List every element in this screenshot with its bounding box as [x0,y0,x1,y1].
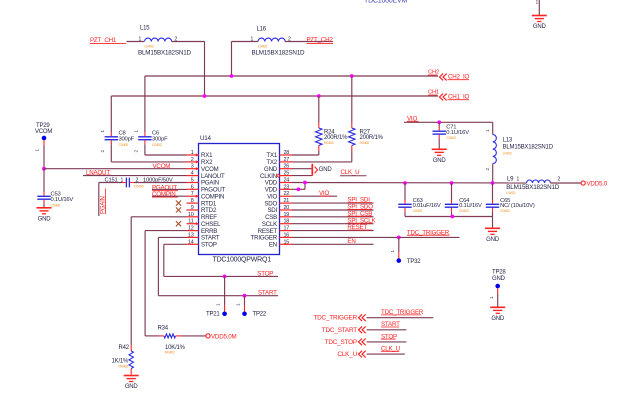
svg-text:R42: R42 [119,345,130,351]
junction [203,94,207,98]
junction [491,181,495,185]
svg-text:START: START [258,290,277,297]
pin 2 RX2 [187,161,199,163]
capacitor C71 [438,122,440,127]
svg-text:2: 2 [134,150,139,153]
wire [43,204,45,208]
pin 9 RTD2 [187,209,199,211]
svg-text:1: 1 [517,177,520,183]
svg-text:25: 25 [284,171,290,177]
svg-text:1: 1 [134,130,139,133]
svg-text:1: 1 [216,303,221,306]
pin 15 EN [280,243,292,245]
resistor R24 [318,96,320,123]
wire [492,217,494,229]
test point TP21 [224,276,226,305]
svg-text:BLM15BX182SN1D: BLM15BX182SN1D [503,145,554,151]
svg-text:L15: L15 [140,26,150,32]
wire pin23 riser [292,188,306,190]
svg-text:1: 1 [536,0,539,6]
pin arrow [196,160,199,163]
svg-text:C0402: C0402 [459,209,469,213]
no-connect RTD2 [176,207,181,212]
junction [243,294,247,298]
svg-text:TP32: TP32 [407,259,421,265]
capacitor C64 [451,183,453,201]
wire [538,0,540,15]
pin 1 RX1 [187,154,199,156]
pin 25 CLKIN [280,175,292,177]
svg-text:2: 2 [100,150,105,153]
junction [317,94,321,98]
no-connect RTD1 [176,201,181,206]
svg-text:TP28: TP28 [492,269,506,275]
pin 3 VCOM [187,168,199,170]
svg-text:L9: L9 [507,177,514,183]
junction [450,181,454,185]
pin arrow [196,153,199,156]
wire [172,41,205,43]
svg-text:CLK_U: CLK_U [337,351,357,358]
ground [37,207,52,209]
wire TRIGGER [292,236,460,238]
pin arrow [196,222,199,225]
wire VCOM net [44,168,187,170]
svg-text:9: 9 [191,205,194,211]
wire [134,182,187,184]
resistor R27 [351,76,353,123]
wire CH2 net [145,75,438,77]
svg-text:15: 15 [284,239,290,245]
svg-text:12: 12 [188,226,194,232]
wire [43,169,45,193]
svg-text:TDC_TRIGGER: TDC_TRIGGER [313,315,357,322]
svg-text:L13: L13 [503,138,513,144]
svg-text:1: 1 [390,250,395,253]
wire [451,212,453,217]
test point TP22 [244,296,246,305]
svg-text:28: 28 [284,150,290,156]
svg-text:R0402: R0402 [165,351,175,355]
ground [485,227,500,229]
pin 5 PGAIN [187,182,199,184]
svg-text:TP22: TP22 [253,311,267,317]
capacitor C63 [404,183,406,201]
svg-text:3: 3 [191,164,194,170]
svg-text:BLM15BX182SN1D: BLM15BX182SN1D [506,184,560,191]
ground [490,306,505,308]
svg-text:0.1U/16V: 0.1U/16V [446,130,469,136]
pin 18 SCLK [280,223,292,225]
svg-text:8: 8 [191,198,194,204]
svg-text:C0402: C0402 [446,136,456,140]
svg-text:L0402: L0402 [145,45,154,49]
junction node VCOM [42,167,46,171]
wire [127,41,145,43]
svg-text:1: 1 [191,150,194,156]
svg-text:CLK_U: CLK_U [341,169,360,176]
wire [438,139,440,149]
wire ERRB [145,230,186,232]
svg-text:EN: EN [347,238,355,245]
no-connect CHSEL [176,221,181,226]
svg-text:13: 13 [188,232,194,238]
wire [144,144,146,155]
svg-text:R0402: R0402 [119,364,129,368]
wire [145,154,187,156]
wire [110,144,112,162]
svg-text:10: 10 [188,212,194,218]
pin 24 VDD [280,182,292,184]
junction [437,120,441,124]
svg-text:11: 11 [188,219,193,225]
svg-text:1: 1 [489,296,494,299]
svg-text:1: 1 [485,129,490,132]
power symbol GND [311,164,313,176]
wire [111,161,186,163]
junction [397,236,401,240]
wire [204,42,206,97]
junction [297,187,301,191]
pin 4 LANOUT [187,175,199,177]
capacitor C65 [492,183,494,201]
wire [404,212,406,217]
wire START [158,236,186,238]
svg-text:22: 22 [284,191,290,197]
svg-text:VDD5.0: VDD5.0 [587,180,608,187]
pin 11 CHSEL [187,223,199,225]
svg-text:GND: GND [492,276,506,282]
wire [231,42,233,77]
wire [99,182,122,184]
svg-text:14: 14 [188,239,194,245]
svg-text:2: 2 [191,157,194,163]
clkin diamond [277,174,281,177]
svg-text:L0402: L0402 [503,152,512,156]
wire CH1 net [111,95,438,97]
junction [451,215,455,219]
svg-text:24: 24 [284,178,290,184]
svg-text:R0402: R0402 [360,141,370,145]
wire VDD rail [292,182,527,185]
pin arrow [196,167,199,170]
svg-text:GND: GND [319,167,333,173]
pin 8 RTD1 [187,202,199,204]
svg-text:27: 27 [284,157,290,163]
test point TP32 [398,237,400,252]
svg-text:2: 2 [558,177,561,183]
svg-text:17: 17 [284,226,290,232]
wire [182,335,207,337]
inductor L13 [492,122,494,134]
pin 17 RESET [280,230,292,232]
svg-text:21: 21 [284,198,290,204]
svg-text:C0402: C0402 [152,143,162,147]
svg-text:R0402: R0402 [324,141,334,145]
power symbol VDD5.0M [206,334,210,338]
pin 20 SDI [280,209,292,211]
wire VIO [404,121,493,123]
svg-text:5: 5 [191,178,194,184]
svg-text:TDC_START: TDC_START [322,327,358,334]
svg-text:1: 1 [100,130,105,133]
svg-text:C0402: C0402 [134,185,144,189]
pin 26 GND [280,168,292,170]
wire SPI_SDI [292,202,374,204]
svg-text:26: 26 [284,164,290,170]
pin 22 VIO [280,195,292,197]
svg-text:C0402: C0402 [413,209,423,213]
wire VIO pin22 [292,195,338,197]
wire SPI_CSB [292,216,374,218]
svg-text:STOP: STOP [201,242,217,249]
svg-text:20: 20 [284,205,290,211]
svg-text:EN: EN [269,242,277,249]
svg-text:VCOM: VCOM [153,163,171,170]
junction [230,74,234,78]
ground [124,375,139,377]
wire [232,41,259,43]
svg-text:L0402: L0402 [258,45,267,49]
wire [43,140,45,146]
svg-text:18: 18 [284,219,290,225]
pin 28 TX1 [280,154,292,156]
svg-text:TDC_STOP: TDC_STOP [325,339,357,346]
wire [83,175,187,177]
svg-text:GND: GND [491,316,505,322]
pin 14 STOP [187,243,199,245]
pin 23 VDD [280,188,292,190]
svg-text:TDC1000QPWRQ1: TDC1000QPWRQ1 [213,256,272,263]
wire rail2 [405,216,493,218]
svg-text:23: 23 [284,184,290,190]
svg-text:1: 1 [235,303,240,306]
svg-text:GND: GND [433,158,447,164]
pin 16 TRIGGER [280,236,292,238]
pin arrow [196,195,199,198]
wire [98,183,100,217]
wire SPI_SDO [292,209,374,211]
svg-text:4: 4 [191,171,194,177]
svg-text:GND: GND [38,216,52,222]
wire RREF [131,216,186,218]
wire [152,195,187,197]
svg-text:BLM15BX182SN1D: BLM15BX182SN1D [252,50,306,57]
wire [285,41,333,43]
wire [110,96,112,132]
pin 27 TX2 [280,161,292,163]
svg-text:16: 16 [284,232,290,238]
wire SPI_SCLK [292,223,374,225]
pin 12 ERRB [187,230,199,232]
power symbol VDD5.0 [581,181,585,185]
wire [551,182,582,184]
svg-text:GND: GND [125,384,139,390]
svg-text:19: 19 [284,212,290,218]
svg-text:C0402: C0402 [500,209,510,213]
svg-text:0.1U/16V: 0.1U/16V [51,197,74,203]
junction [223,275,227,279]
wire RESET [292,230,374,232]
wire EN [292,243,374,245]
svg-text:TP21: TP21 [206,311,220,317]
svg-text:GND: GND [486,237,500,243]
pin 6 PAGOUT [187,188,199,190]
wire STOP [164,243,187,245]
svg-text:C0402: C0402 [119,143,129,147]
wire [292,175,313,177]
wire [292,168,313,170]
svg-text:VDD5.0M: VDD5.0M [211,333,236,340]
ground [432,148,447,150]
wire [492,212,494,217]
svg-text:L16: L16 [257,27,267,33]
pin 13 START [187,236,199,238]
svg-text:1: 1 [139,37,142,43]
off-page connector CH1_IO [440,94,447,101]
off-page connector CH2_IO [440,74,447,81]
svg-text:1: 1 [35,149,40,152]
junction [350,74,354,78]
junction [403,181,407,185]
svg-text:2: 2 [485,168,490,171]
pin 19 CSB [280,216,292,218]
svg-text:TDC1000EVM: TDC1000EVM [364,0,407,5]
pin 7 COMPIN [187,195,199,197]
svg-text:PZT_CH2: PZT_CH2 [307,37,334,44]
capacitor C53 [37,195,50,197]
svg-text:C0402: C0402 [51,204,61,208]
svg-text:7: 7 [191,191,194,197]
wire [144,76,146,132]
svg-text:BLM15BX182SN1D: BLM15BX182SN1D [138,50,192,57]
svg-text:300pF: 300pF [119,136,135,142]
wire [492,164,494,183]
svg-text:STOP: STOP [257,270,273,277]
svg-text:R34: R34 [158,326,169,332]
svg-text:VCOM: VCOM [35,129,52,135]
ground top-right [532,15,547,17]
pin 21 SDO [280,202,292,204]
svg-text:300pF: 300pF [152,136,168,142]
wire [152,188,187,190]
pin 10 RREF [187,216,199,218]
svg-text:GND: GND [533,24,547,30]
svg-text:6: 6 [191,184,194,190]
svg-text:U14: U14 [200,135,212,142]
svg-text:L0402: L0402 [506,191,515,195]
junction [303,181,307,185]
